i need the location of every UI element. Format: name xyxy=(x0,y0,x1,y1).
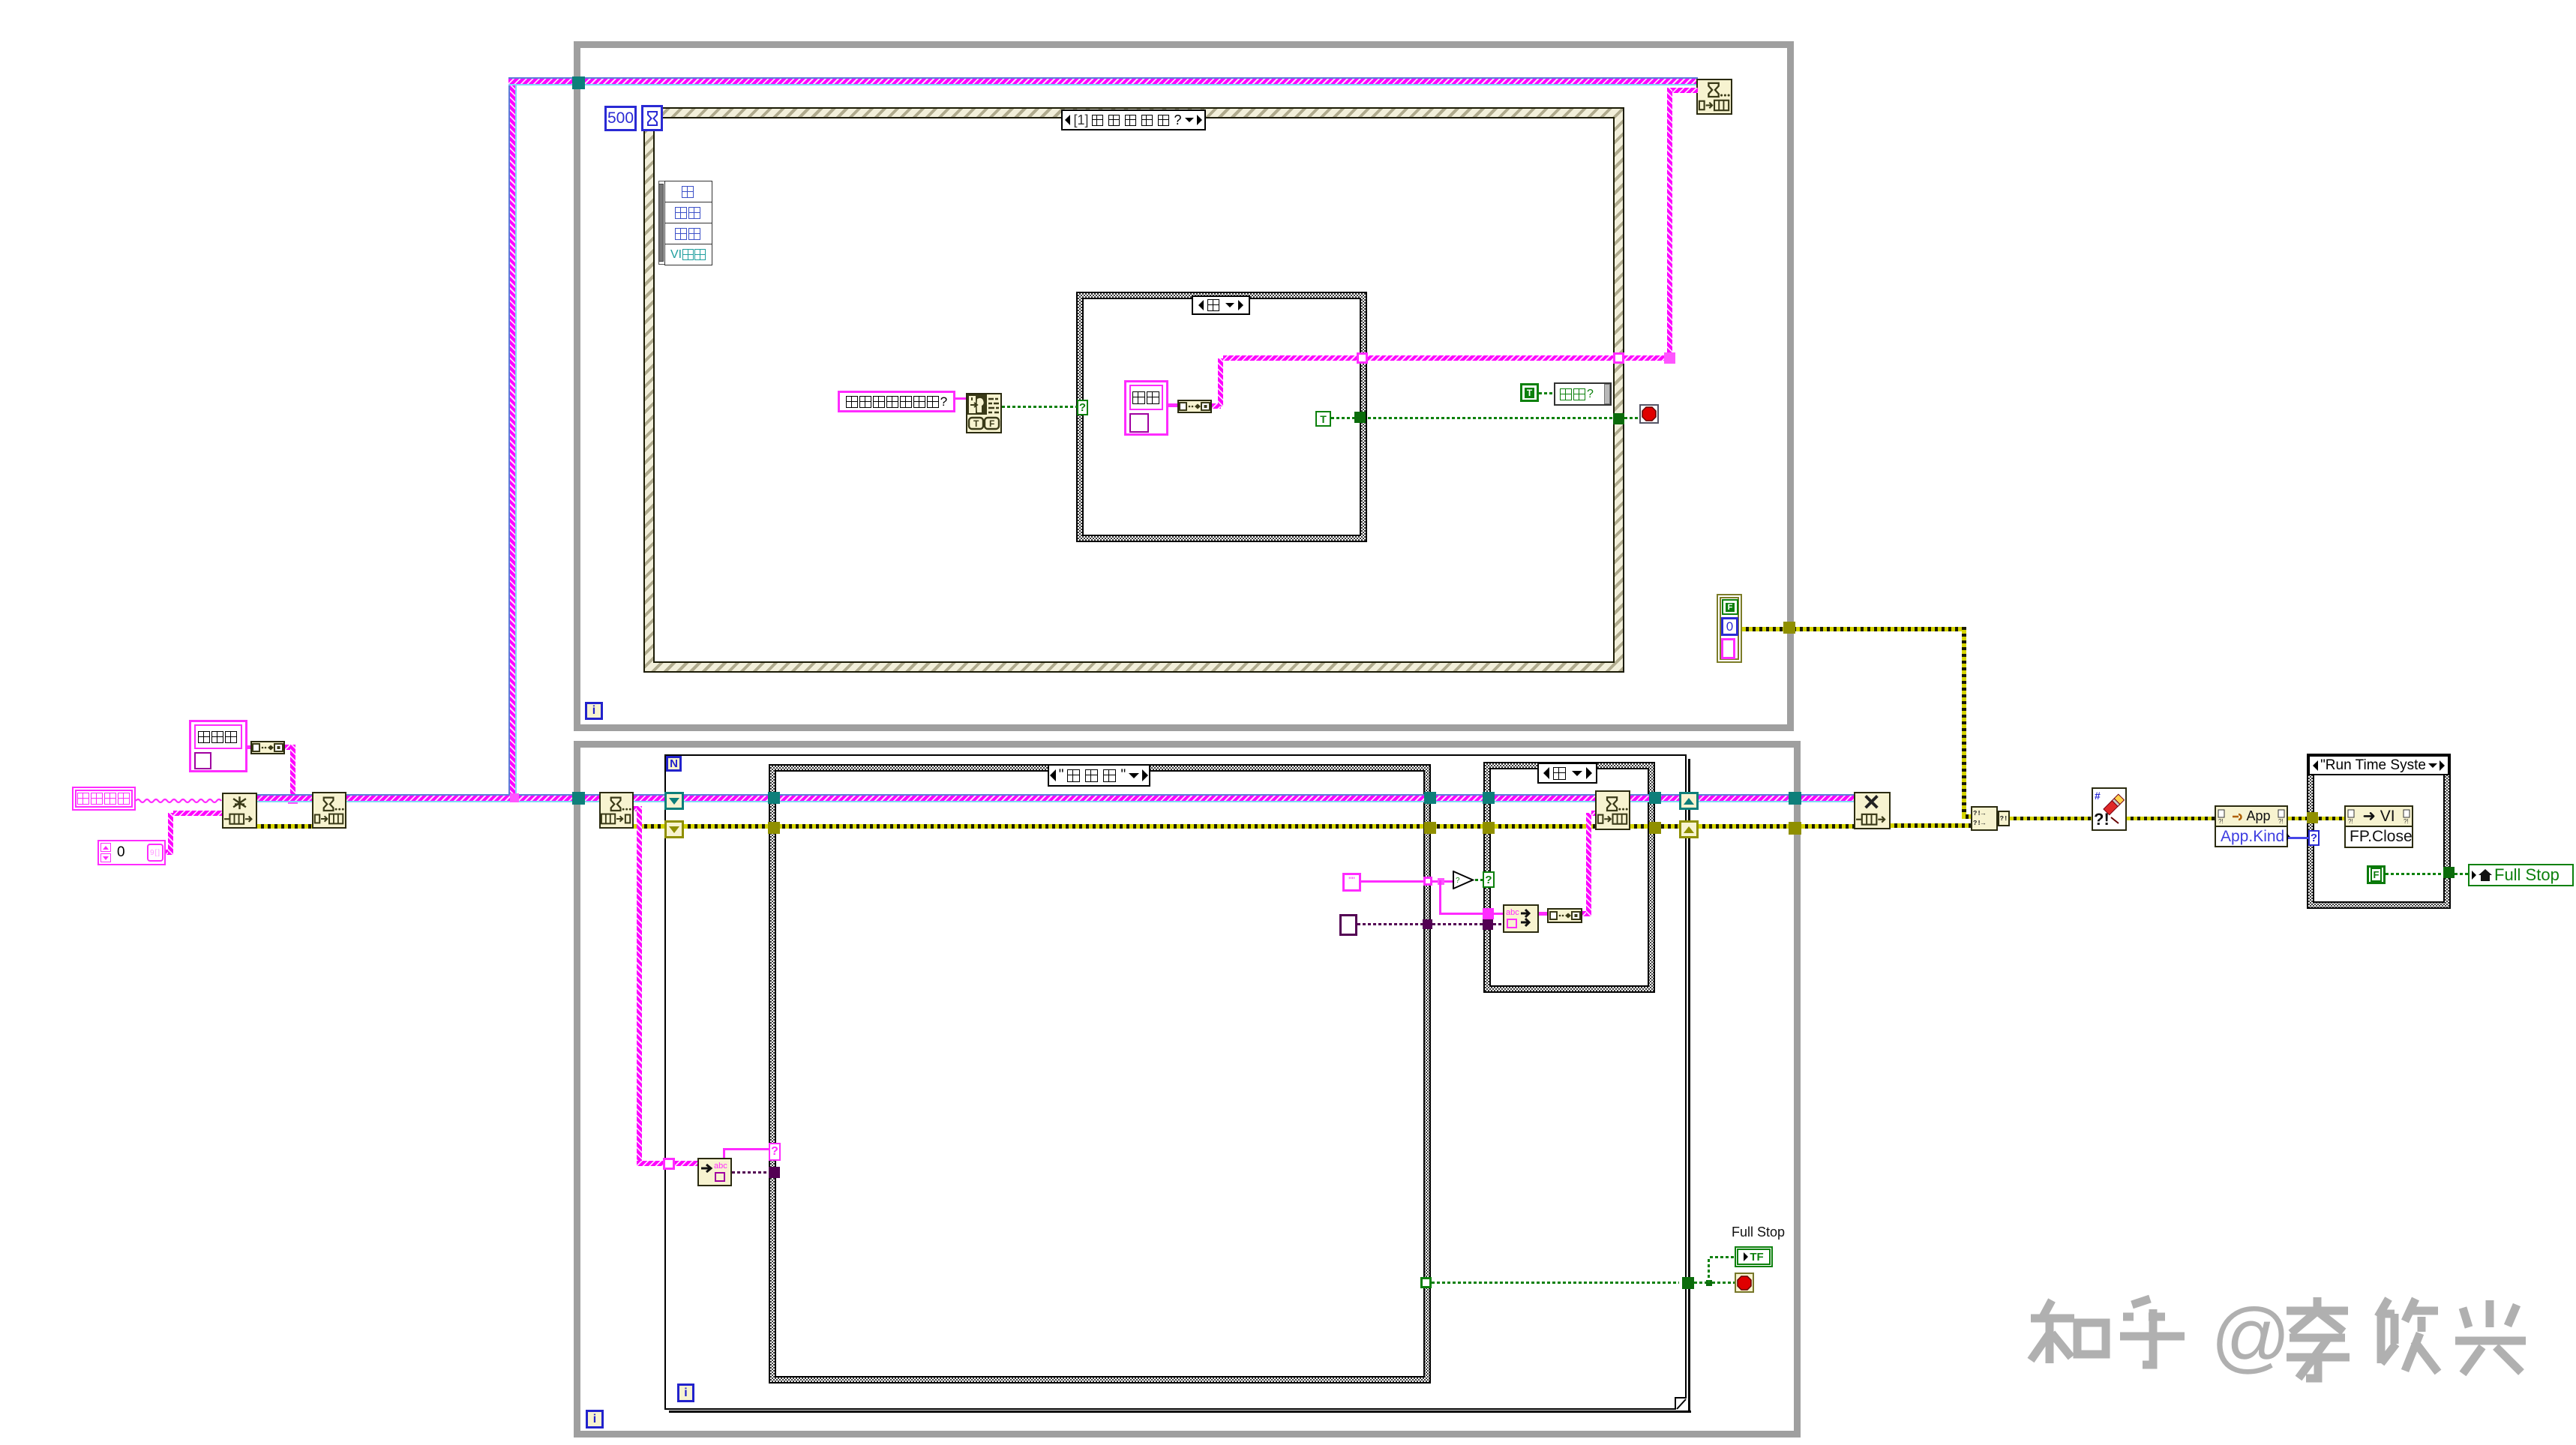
wire: message string to dialog xyxy=(954,397,967,400)
for loop page-curl corner xyxy=(1675,1397,1687,1410)
wire: stop boolean to loop stop xyxy=(1432,1282,1679,1284)
wire: queue out of obtain xyxy=(257,794,312,802)
shift register right (queue) xyxy=(1679,792,1699,810)
wire: comparison to 假 selector xyxy=(1475,879,1483,881)
obtain queue node xyxy=(222,793,257,829)
wire: exit-cluster data up to enqueue xyxy=(1672,88,1698,93)
case selector label "Run Time Syste" xyxy=(2308,755,2449,775)
tunnel: boolean out of Run Time case xyxy=(2443,867,2455,878)
tunnel: error into 初始化 case xyxy=(768,822,780,834)
boolean constant T (真 case) xyxy=(1315,411,1331,427)
event structure selector label "[1] 前面板关闭?" xyxy=(1061,109,1206,130)
wire: dialog boolean to case selector xyxy=(1002,406,1077,408)
wire: error out of obtain xyxy=(257,824,312,829)
case structure 真 (inside event frame) xyxy=(1076,292,1367,542)
svg-text:#: # xyxy=(2095,790,2101,802)
wire: error cluster from constant to merge errors xyxy=(1742,627,1965,631)
svg-text:abc: abc xyxy=(714,1162,727,1171)
svg-text:?!: ?! xyxy=(2348,818,2353,824)
tunnel: variant out of 初始化 case xyxy=(1423,919,1432,929)
wire: bundled init command down to queue wire xyxy=(285,745,295,750)
enqueue element node (假 case) xyxy=(1595,790,1630,830)
case selector terminal ? (真 case) xyxy=(1077,400,1088,415)
timeout constant 500 xyxy=(604,106,637,131)
svg-text:abc: abc xyxy=(1506,908,1519,917)
wire: size 0 up to obtain queue xyxy=(166,850,173,855)
wire: string compare xyxy=(1361,880,1424,883)
while loop (top, event handling loop) xyxy=(574,41,1794,731)
unbundle / scan command node xyxy=(697,1158,732,1186)
tunnel: queue wire through top loop left border xyxy=(572,76,585,89)
for loop stacked frame echo lines xyxy=(669,1411,1691,1413)
wire: element up to enqueue xyxy=(1582,911,1589,916)
event structure border xyxy=(643,107,1624,673)
build array / bundle node (假 case) xyxy=(1547,908,1582,923)
property node App (App.Kind) xyxy=(2215,805,2288,827)
while loop (bottom, command executing loop) xyxy=(574,741,1801,1438)
tunnel: data out of 真 case xyxy=(1357,352,1368,364)
watermark 知乎 @李欣兴 xyxy=(2025,1294,2572,1384)
tunnel: variant into 初始化 case xyxy=(769,1167,780,1178)
tunnel: boolean out of event structure xyxy=(1613,413,1624,424)
event discard? terminal 放弃? xyxy=(1554,382,1612,406)
boolean constant F (Run Time case) xyxy=(2367,865,2386,884)
tunnel: command into for loop xyxy=(663,1158,675,1170)
tunnel: error into Run Time case xyxy=(2307,812,2318,823)
junction: vertical queue branch joins xyxy=(510,793,519,802)
local variable Full Stop (TF) xyxy=(1735,1246,1773,1267)
tunnel: queue into 初始化 case xyxy=(768,792,780,804)
wire: queue refnum vertical run (left side) xyxy=(508,77,517,802)
wire: queue name (wavy string wire) xyxy=(136,794,222,801)
svg-text:?!: ?! xyxy=(2094,810,2110,829)
svg-text:?!: ?! xyxy=(2278,818,2284,824)
label Full Stop xyxy=(1732,1224,1792,1240)
tunnel: queue wire into bottom loop xyxy=(572,792,585,805)
for loop iteration terminal i xyxy=(677,1384,694,1402)
wire: T to discard terminal xyxy=(1539,392,1554,394)
dequeue element node xyxy=(599,792,634,829)
wire: dequeued command cluster down xyxy=(634,806,640,811)
case selector terminal ? (假 case) xyxy=(1483,871,1495,888)
property node VI (FP.Close) xyxy=(2344,805,2413,827)
tunnel: queue out of bottom loop xyxy=(1789,792,1801,805)
svg-text:T: T xyxy=(973,418,979,429)
case structure "初始化" xyxy=(769,764,1431,1384)
enqueue element node (feeder) xyxy=(312,792,346,829)
tunnel: string out of 初始化 case xyxy=(1423,877,1432,886)
tunnel: variant into 假 case xyxy=(1483,919,1493,930)
wire: command name to case selector xyxy=(723,1148,725,1158)
case structure "Run Time Syste xyxy=(2307,754,2451,909)
cluster constant (F / 0 / empty string) xyxy=(1717,594,1742,663)
tunnel: string into 假 case xyxy=(1483,908,1494,919)
iteration terminal i (bottom loop) xyxy=(586,1410,604,1429)
wire: App.Kind to case selector xyxy=(2288,837,2310,839)
case selector label 假 xyxy=(1537,763,1597,784)
iteration terminal i (top loop) xyxy=(585,702,603,720)
junction: stop wire branch xyxy=(1706,1280,1712,1286)
empty string/path? comparison node xyxy=(1453,871,1475,889)
svg-text:@: @ xyxy=(2211,1294,2291,1381)
svg-text:F: F xyxy=(989,418,994,429)
wire: queue across for loop xyxy=(684,794,1483,802)
case structure 假 xyxy=(1483,762,1655,993)
build array / bundle node (真 case) xyxy=(1177,400,1212,413)
tunnel: queue out of 初始化 case xyxy=(1424,792,1436,804)
junction: string wire branch xyxy=(1438,878,1444,885)
enqueue element node (top right) xyxy=(1696,79,1732,115)
two-button dialog node xyxy=(966,393,1002,433)
empty string constant "" xyxy=(1342,873,1361,892)
tunnel: queue into 假 case xyxy=(1483,792,1495,804)
tunnel: boolean out of 真 case xyxy=(1354,412,1366,423)
tunnel: error into 假 case xyxy=(1483,822,1495,834)
wire: queue to bottom loop xyxy=(346,794,573,802)
boolean constant T (discard?) xyxy=(1520,383,1539,402)
clear errors node xyxy=(2092,787,2127,831)
case selector label "初始化" xyxy=(1048,764,1150,787)
tunnel: stop boolean out of for loop xyxy=(1682,1277,1694,1289)
case selector terminal ? ("初始化" case) xyxy=(769,1143,781,1161)
string control 指令序列 xyxy=(72,787,136,811)
wire: queue refnum top horizontal run xyxy=(508,77,1698,85)
junction: pink wire corner xyxy=(1664,352,1675,364)
tunnel: error out of bottom loop xyxy=(1789,822,1801,835)
event timeout hourglass terminal xyxy=(641,105,663,131)
wire: F to Full Stop global xyxy=(2386,873,2443,875)
release queue node xyxy=(1854,792,1891,829)
cluster constant 初始化 xyxy=(189,720,247,772)
wire: error across for loop xyxy=(684,824,1483,829)
tunnel: data out of event structure xyxy=(1613,352,1624,364)
string constant 确定要退出程序? xyxy=(838,391,955,412)
svg-text:?: ? xyxy=(1456,877,1460,885)
case selector terminal ? (Run Time case) xyxy=(2308,830,2320,846)
svg-text:?!: ?! xyxy=(2404,818,2409,824)
shift register right (error) xyxy=(1679,820,1699,838)
tunnel: error wire through top loop right border xyxy=(1783,622,1795,634)
tunnel: queue out of 假 case xyxy=(1649,792,1661,804)
global variable Full Stop xyxy=(2468,864,2574,886)
merge errors node xyxy=(1971,806,1998,831)
boolean control Full Stop (stop button) xyxy=(1735,1273,1754,1293)
tunnel: error out of 初始化 case xyxy=(1424,822,1436,834)
tunnel: error out of 假 case xyxy=(1649,822,1661,834)
tunnel: stop boolean out of 初始化 case (unwired default) xyxy=(1420,1277,1432,1288)
wire: bundle output up and right xyxy=(1212,403,1221,409)
junction: init data joins queue wire xyxy=(288,794,298,804)
shift register left (queue) xyxy=(664,792,684,810)
for loop count terminal N xyxy=(666,756,682,772)
wire: T to loop stop xyxy=(1331,417,1613,419)
for loop (N frame) xyxy=(664,754,1687,1410)
to-string conversion node (abc) xyxy=(1503,904,1539,933)
wire: variant to 假 case xyxy=(1357,923,1423,925)
wire: command data (variant) xyxy=(732,1171,769,1174)
case selector label 真 xyxy=(1192,295,1250,315)
loop stop condition terminal (red stop sign) xyxy=(1639,404,1659,424)
wire: error out of dequeue xyxy=(634,824,665,829)
svg-text:?!: ?! xyxy=(2218,818,2224,824)
wire: error from release queue to merge errors xyxy=(1891,823,1972,828)
build array / bundle node (feeder) xyxy=(250,741,285,754)
empty variant constant xyxy=(1339,914,1357,936)
numeric control 0 (max queue size) xyxy=(97,840,166,865)
shift register left (error) xyxy=(664,820,684,838)
boolean terminal 退出 xyxy=(1124,380,1168,436)
wire: 退出 to bundle xyxy=(1168,403,1177,407)
event data node (源/类型/时间/VI引用) xyxy=(658,181,712,265)
